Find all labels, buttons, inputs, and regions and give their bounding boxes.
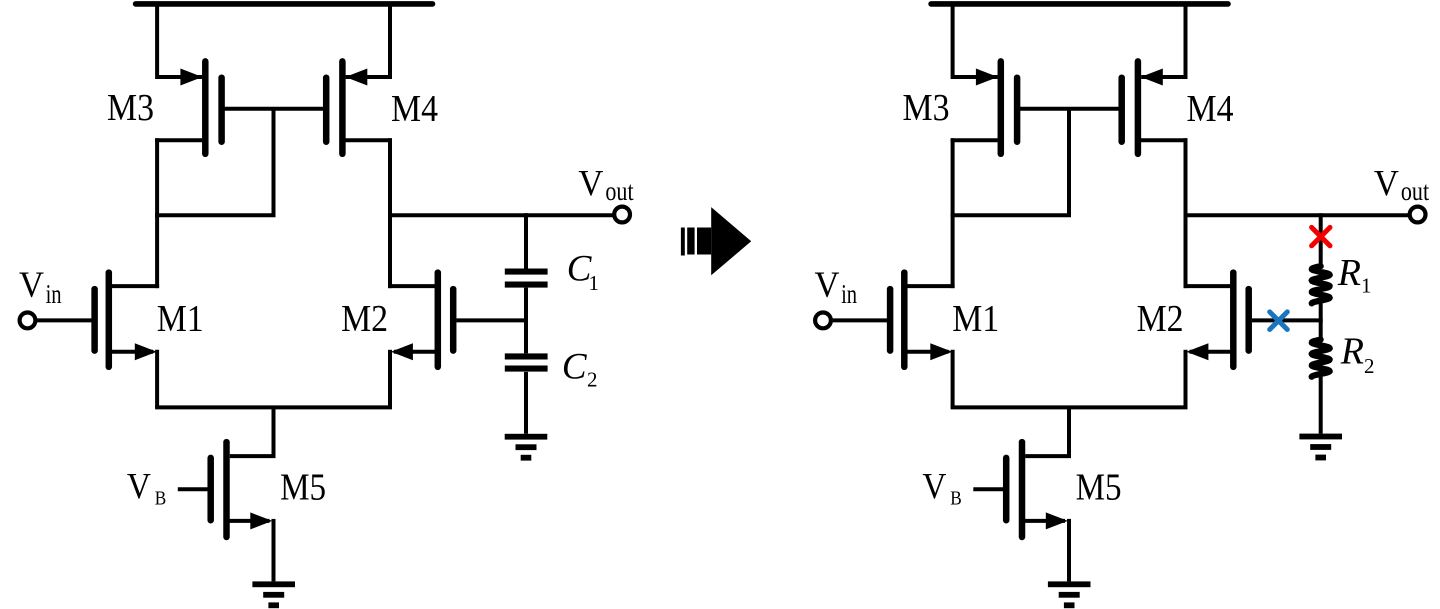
wire: M2 drain (right circuit) — [1184, 284, 1234, 288]
svg-text:M3: M3 — [903, 87, 950, 129]
transistor M5 (left circuit) — [211, 442, 227, 537]
wire: rail to M3 source (left circuit) — [157, 4, 202, 77]
wire: M1 drain (right circuit) — [904, 284, 954, 288]
wire: M5 source to ground (left circuit) — [229, 519, 270, 523]
svg-text:M4: M4 — [1187, 88, 1234, 130]
wire: M5 source to ground (right circuit) — [1024, 519, 1065, 523]
wire: rail to M4 source (left circuit) — [346, 4, 390, 77]
svg-text:M3: M3 — [107, 87, 154, 129]
svg-text:R: R — [1337, 252, 1361, 294]
svg-text:R: R — [1340, 330, 1364, 372]
wire: Vin to M1 gate (left circuit) — [37, 318, 92, 322]
wire: M1 drain (left circuit) — [109, 284, 159, 288]
M2 source arrow (right circuit) — [1186, 343, 1208, 360]
M1 source arrow (left circuit) — [135, 343, 157, 360]
svg-text:2: 2 — [1364, 354, 1375, 378]
wire: M3-M4 gate line (left circuit) — [222, 107, 327, 111]
VDD power rail (right circuit) — [931, 1, 1228, 7]
ground symbol below C2 — [505, 434, 548, 440]
wire: M2 drain (left circuit) — [388, 284, 438, 288]
wire: gate node vertical (left circuit) — [272, 109, 276, 216]
wire: M1 source (left circuit) — [109, 350, 153, 354]
svg-text:C: C — [562, 346, 588, 387]
M3 source arrow (right circuit) — [976, 69, 998, 86]
M3 source arrow (left circuit) — [180, 69, 202, 86]
transistor M2 (left circuit) — [438, 273, 453, 367]
wire: Vin to M1 gate (right circuit) — [833, 318, 888, 322]
svg-text:M1: M1 — [157, 298, 204, 340]
svg-text:1: 1 — [589, 271, 600, 295]
VDD power rail (left circuit) — [136, 1, 433, 7]
wire: tail to M5 drain (left circuit) — [230, 407, 274, 456]
wire: M3 drain / M1 drain column (right circuit) — [951, 138, 998, 142]
wire: R1 to R2 / feedback node — [1319, 303, 1323, 339]
transistor M5 (right circuit) — [1006, 442, 1022, 537]
output terminal Vout (left circuit) — [614, 207, 630, 223]
transistor M3 (left circuit) — [205, 61, 221, 153]
wire: M2 gate to feedback node (left circuit) — [456, 318, 528, 322]
red X mark on output-to-R1 wire — [1312, 227, 1330, 245]
wire: output line Vout (right circuit) — [1186, 213, 1410, 217]
wire: differential pair tail rail (right circuit) — [951, 405, 1188, 409]
svg-text:in: in — [46, 279, 62, 309]
svg-text:out: out — [1401, 176, 1430, 206]
wire: output line Vout (left circuit) — [390, 213, 614, 217]
wire: M4 drain / output column (left circuit) — [346, 138, 393, 142]
svg-text:M2: M2 — [1137, 298, 1184, 340]
wire: tail to M5 drain (right circuit) — [1025, 407, 1069, 456]
M4 source arrow (right circuit) — [1141, 69, 1163, 86]
svg-text:V: V — [127, 466, 151, 507]
wire: M4 drain / output column (right circuit) — [1141, 138, 1188, 142]
M4 source arrow (left circuit) — [345, 69, 367, 86]
svg-text:1: 1 — [1361, 274, 1372, 298]
wire: differential pair tail rail (left circuit) — [155, 405, 392, 409]
svg-text:V: V — [578, 164, 603, 205]
wire: M2 source (left circuit) — [394, 350, 438, 354]
wire: Vout to R1 (right circuit) — [1319, 213, 1323, 266]
input terminal Vin (right circuit) — [815, 313, 831, 329]
wire: rail to M3 source (right circuit) — [953, 4, 998, 77]
wire: VB to M5 gate (left circuit) — [178, 487, 209, 491]
wire: M2 source (right circuit) — [1190, 350, 1234, 354]
wire: Vout to C1 (left circuit) — [524, 213, 528, 268]
M1 source arrow (right circuit) — [930, 343, 952, 360]
wire: diode-connect node (right circuit) — [951, 213, 1071, 217]
wire: M3-M4 gate line (right circuit) — [1017, 107, 1122, 111]
ground symbol below M5 (left circuit) — [252, 581, 295, 587]
wire: VB to M5 gate (right circuit) — [973, 487, 1004, 491]
transistor M1 (left circuit) — [95, 273, 109, 367]
svg-text:V: V — [1374, 164, 1399, 205]
input terminal Vin (left circuit) — [20, 313, 36, 329]
svg-text:B: B — [950, 487, 962, 509]
M5 source arrow (right circuit) — [1046, 512, 1068, 529]
svg-text:M1: M1 — [952, 298, 999, 340]
wire: M3 drain / M1 drain column (left circuit) — [155, 138, 202, 142]
wire: rail to M4 source (right circuit) — [1141, 4, 1185, 77]
transistor M3 (right circuit) — [1001, 61, 1017, 153]
output terminal Vout (right circuit) — [1410, 207, 1426, 223]
ground symbol below M5 (right circuit) — [1048, 581, 1091, 587]
wire: diode-connect node (left circuit) — [155, 213, 275, 217]
wire: M2 gate to feedback node (right circuit) — [1252, 318, 1323, 322]
wire: C1 to C2 / feedback node — [524, 288, 528, 354]
transistor M1 (right circuit) — [890, 273, 904, 367]
M5 source arrow (left circuit) — [250, 512, 272, 529]
svg-text:B: B — [155, 487, 167, 509]
capacitor C2 — [505, 353, 548, 371]
svg-text:M4: M4 — [391, 88, 438, 130]
transistor M4 (left circuit) — [326, 61, 342, 153]
resistor R2 — [1312, 340, 1330, 377]
svg-text:M5: M5 — [1076, 466, 1122, 508]
ground symbol below R2 — [1299, 434, 1342, 440]
wire: gate node vertical (right circuit) — [1067, 109, 1071, 216]
resistor R1 — [1312, 266, 1330, 303]
capacitor C1 — [505, 269, 548, 288]
wire: R2 to ground — [1319, 377, 1323, 434]
transformation arrow between circuits — [681, 207, 751, 275]
svg-text:V: V — [19, 265, 44, 306]
svg-text:M5: M5 — [280, 466, 326, 508]
svg-text:V: V — [922, 466, 946, 507]
M2 source arrow (left circuit) — [391, 343, 413, 360]
svg-text:out: out — [605, 176, 634, 206]
wire: M1 source (right circuit) — [904, 350, 948, 354]
svg-text:V: V — [815, 265, 840, 306]
svg-text:M2: M2 — [341, 298, 388, 340]
blue X mark on M2 gate wire — [1270, 312, 1288, 330]
svg-text:2: 2 — [587, 368, 598, 392]
wire: C2 to ground — [524, 372, 528, 434]
transistor M2 (right circuit) — [1233, 273, 1248, 367]
svg-text:in: in — [841, 279, 857, 309]
transistor M4 (right circuit) — [1122, 61, 1138, 153]
